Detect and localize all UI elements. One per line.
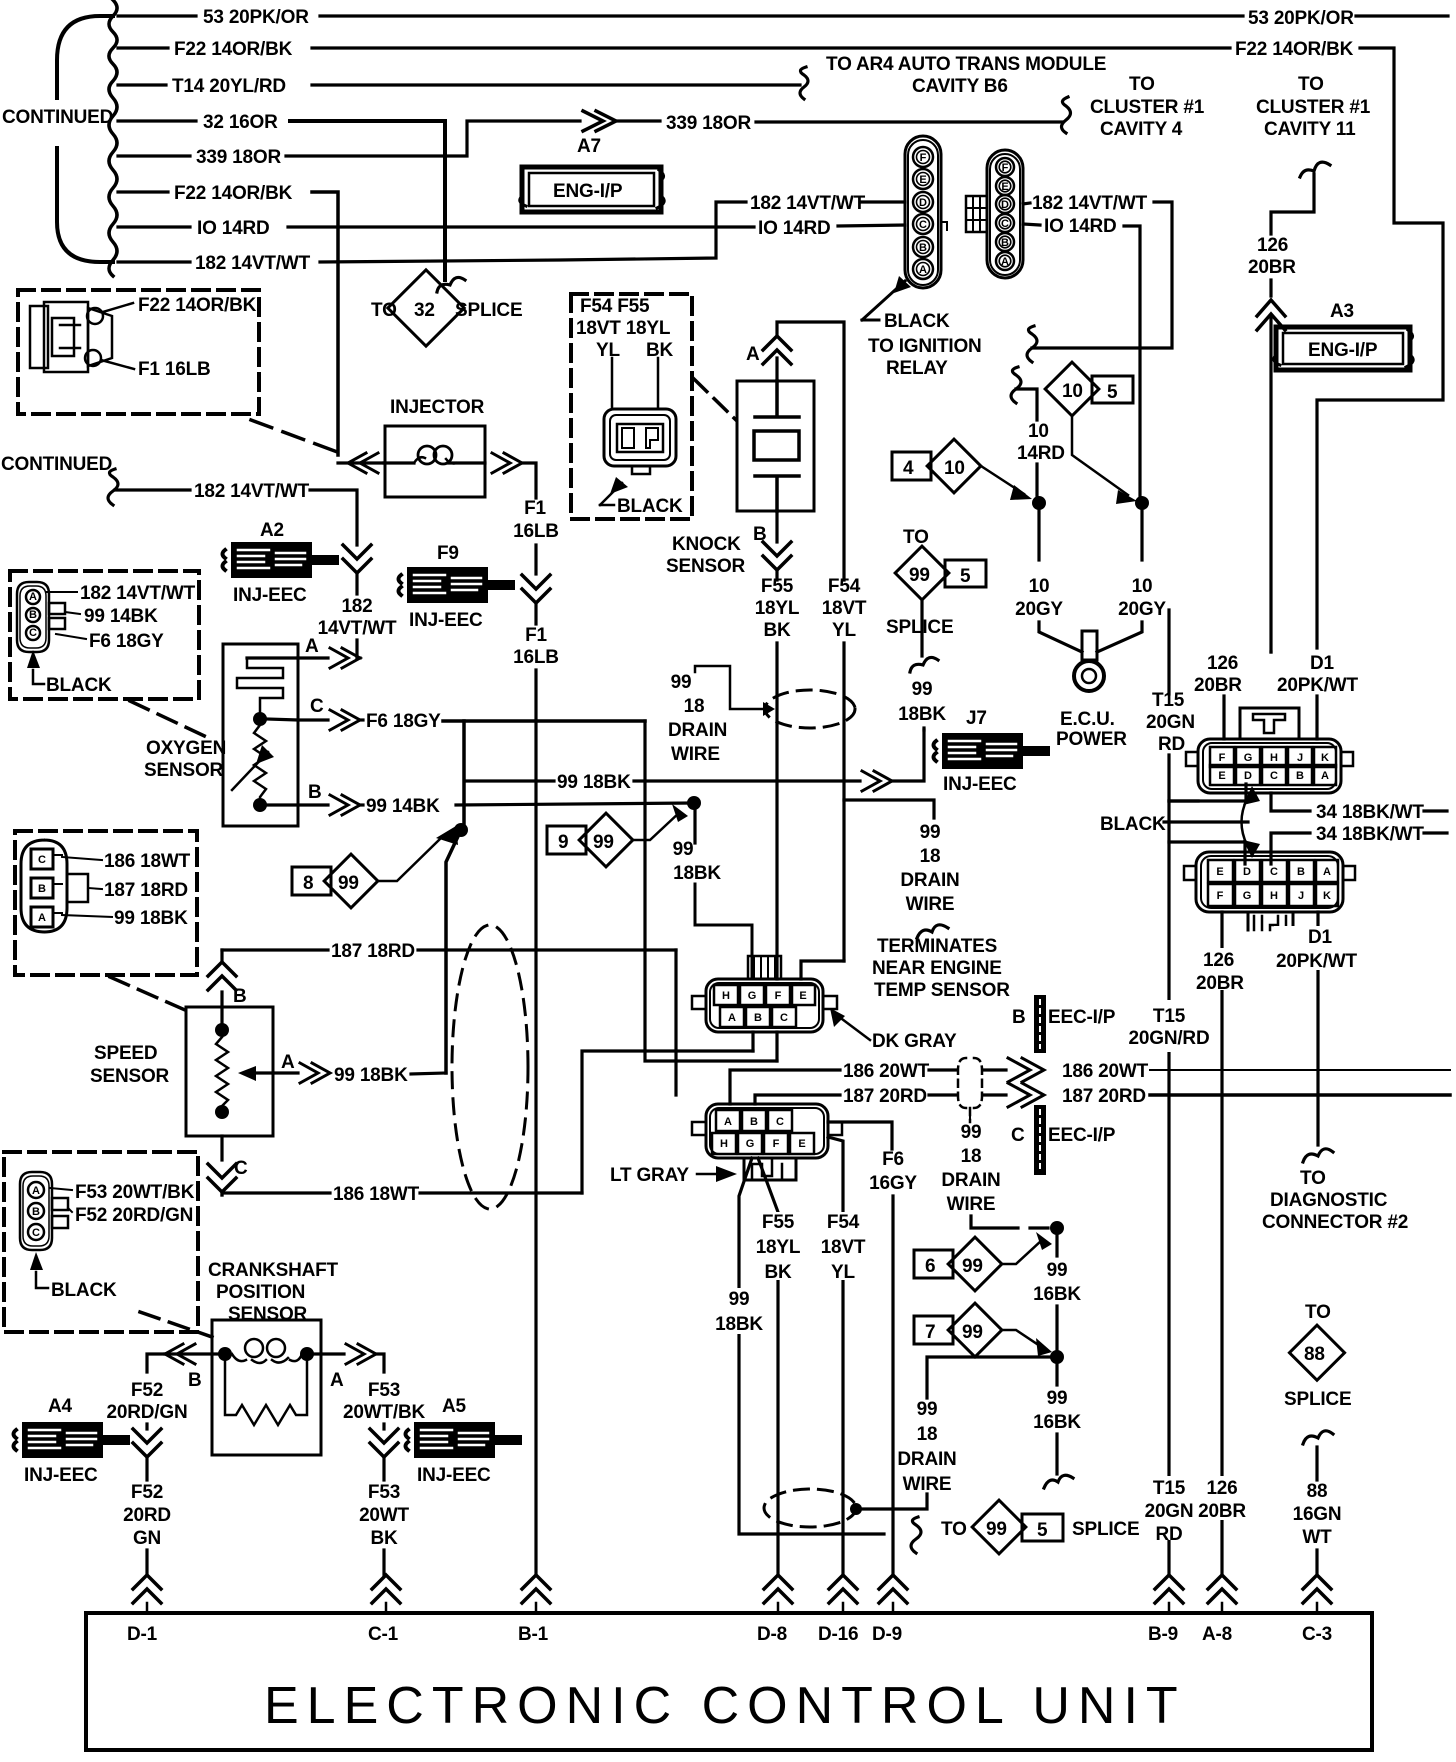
svg-text:INJ-EEC: INJ-EEC — [233, 585, 307, 606]
KNOCK SENSOR — [666, 322, 844, 580]
connector C1 6-pin left — [862, 136, 982, 379]
svg-text:CAVITY 11: CAVITY 11 — [1264, 119, 1356, 140]
186 18WT row — [222, 1193, 330, 1195]
svg-text:SPLICE: SPLICE — [1072, 1519, 1139, 1540]
svg-text:99: 99 — [920, 822, 941, 843]
svg-text:D-8: D-8 — [757, 1624, 787, 1645]
svg-text:F22 14OR/BK: F22 14OR/BK — [138, 295, 257, 316]
svg-text:LT GRAY: LT GRAY — [610, 1165, 689, 1186]
svg-text:BLACK: BLACK — [617, 496, 683, 517]
svg-text:C: C — [310, 696, 324, 717]
svg-text:53 20PK/OR: 53 20PK/OR — [1248, 8, 1354, 29]
svg-text:5: 5 — [1037, 1520, 1048, 1541]
svg-text:NEAR ENGINE: NEAR ENGINE — [872, 958, 1002, 979]
svg-text:187 18RD: 187 18RD — [104, 880, 188, 901]
svg-text:182: 182 — [341, 596, 372, 617]
svg-text:H: H — [722, 990, 730, 1002]
oxygen sensor box — [223, 636, 692, 826]
ignition relay breaks — [1027, 326, 1037, 362]
99 18BK corner wire + heavy verticals — [462, 721, 466, 826]
svg-text:T15: T15 — [1153, 1006, 1186, 1027]
F22/F1 dashed box top-left — [18, 290, 259, 414]
svg-text:187 20RD: 187 20RD — [843, 1086, 927, 1107]
svg-text:A: A — [32, 1185, 40, 1197]
conn1 10-pin — [1186, 708, 1353, 793]
svg-text:F22 14OR/BK: F22 14OR/BK — [174, 183, 293, 204]
svg-text:D: D — [1001, 199, 1009, 211]
LT GRAY connector — [610, 1104, 842, 1186]
svg-text:TO: TO — [371, 300, 397, 321]
svg-text:SENSOR: SENSOR — [666, 556, 746, 577]
svg-text:YL: YL — [596, 340, 620, 361]
TO 99|5 SPLICE lower — [941, 1500, 1139, 1554]
svg-text:E.C.U.: E.C.U. — [1060, 709, 1115, 730]
svg-text:99 18BK: 99 18BK — [557, 772, 631, 793]
svg-text:182 14VT/WT: 182 14VT/WT — [194, 481, 310, 502]
svg-text:DRAIN: DRAIN — [941, 1170, 1000, 1191]
svg-text:99: 99 — [961, 1122, 982, 1143]
svg-text:POWER: POWER — [1056, 729, 1127, 750]
svg-text:T15: T15 — [1153, 1478, 1186, 1499]
svg-text:20GN: 20GN — [1146, 712, 1195, 733]
svg-text:B: B — [1297, 866, 1305, 878]
svg-text:C: C — [780, 1012, 788, 1024]
svg-text:G: G — [1243, 890, 1252, 902]
svg-text:F52: F52 — [131, 1380, 163, 1401]
wire IO 14RD y227 — [118, 225, 190, 228]
svg-text:18BK: 18BK — [898, 704, 946, 725]
speed sensor dashed connector box — [15, 831, 197, 975]
svg-text:F54 F55: F54 F55 — [580, 296, 650, 317]
svg-text:WIRE: WIRE — [947, 1194, 996, 1215]
svg-text:SPLICE: SPLICE — [455, 300, 522, 321]
svg-text:WIRE: WIRE — [903, 1474, 952, 1495]
svg-text:F1: F1 — [524, 498, 546, 519]
10 20GY labels + ring — [1037, 509, 1040, 560]
svg-text:A: A — [38, 912, 46, 924]
svg-text:18VT: 18VT — [822, 598, 867, 619]
svg-text:E: E — [1216, 866, 1223, 878]
svg-text:A7: A7 — [577, 136, 601, 157]
svg-text:D-1: D-1 — [127, 1624, 158, 1645]
svg-text:A5: A5 — [442, 1396, 467, 1417]
svg-text:182 14VT/WT: 182 14VT/WT — [1032, 193, 1148, 214]
DK GRAY connector — [692, 800, 957, 1052]
svg-text:F: F — [773, 1138, 780, 1150]
wire T14 20YL/RD — [118, 83, 166, 86]
svg-text:G: G — [748, 990, 757, 1002]
svg-text:B: B — [32, 1206, 40, 1218]
svg-text:F55: F55 — [762, 1212, 795, 1233]
svg-text:E: E — [798, 1138, 805, 1150]
svg-text:99: 99 — [673, 839, 694, 860]
A4 and A5 icons — [14, 1396, 131, 1486]
svg-text:BK: BK — [764, 1262, 792, 1283]
99 18 drain wire #3 (under C) — [941, 1114, 1048, 1228]
svg-text:B: B — [29, 609, 37, 621]
svg-text:CONTINUED: CONTINUED — [1, 454, 112, 475]
svg-text:18: 18 — [684, 696, 705, 717]
F55/F54/F6 below LT GRAY — [758, 1158, 778, 1575]
svg-text:F54: F54 — [828, 576, 861, 597]
ENG-I/P A3 box — [1274, 301, 1413, 370]
9|99 diamond — [547, 804, 688, 867]
break to AR4 — [800, 67, 808, 99]
svg-text:INJ-EEC: INJ-EEC — [409, 610, 483, 631]
D1 col below conn2 — [1316, 912, 1319, 1145]
dashed inline conn — [958, 1058, 982, 1108]
crank dashed connector box — [4, 1152, 198, 1332]
svg-text:H: H — [720, 1138, 728, 1150]
svg-text:16BK: 16BK — [1033, 1284, 1081, 1305]
svg-text:339 18OR: 339 18OR — [666, 113, 751, 134]
svg-text:F6: F6 — [882, 1149, 904, 1170]
svg-text:RD: RD — [1155, 1524, 1182, 1545]
svg-text:BLACK: BLACK — [46, 675, 112, 696]
svg-text:C-1: C-1 — [368, 1624, 399, 1645]
conn2 10-pin — [1184, 852, 1355, 930]
svg-text:B: B — [188, 1370, 202, 1391]
svg-text:DRAIN: DRAIN — [668, 720, 727, 741]
svg-text:126: 126 — [1207, 653, 1238, 674]
svg-text:A: A — [746, 344, 760, 365]
svg-text:339 18OR: 339 18OR — [196, 147, 281, 168]
svg-text:126: 126 — [1203, 950, 1234, 971]
wire 182 y262 — [118, 260, 190, 263]
svg-text:WIRE: WIRE — [906, 894, 955, 915]
svg-text:20BR: 20BR — [1196, 973, 1244, 994]
svg-text:J: J — [1298, 890, 1304, 902]
svg-text:YL: YL — [832, 620, 856, 641]
INJECTOR — [338, 397, 536, 498]
svg-text:16GN: 16GN — [1293, 1504, 1342, 1525]
svg-text:16GY: 16GY — [869, 1173, 917, 1194]
svg-text:A: A — [29, 591, 37, 603]
svg-text:18VT 18YL: 18VT 18YL — [576, 318, 671, 339]
svg-text:B: B — [38, 883, 46, 895]
svg-text:99: 99 — [1047, 1260, 1068, 1281]
svg-text:18VT: 18VT — [821, 1237, 866, 1258]
svg-text:E: E — [1218, 770, 1225, 782]
svg-text:88: 88 — [1307, 1481, 1328, 1502]
svg-text:F1: F1 — [525, 625, 547, 646]
svg-text:SPLICE: SPLICE — [1284, 1389, 1351, 1410]
svg-text:A2: A2 — [260, 520, 284, 541]
svg-text:F9: F9 — [437, 543, 459, 564]
svg-text:C: C — [32, 1227, 40, 1239]
186/187 rows — [730, 1070, 840, 1104]
svg-text:F55: F55 — [761, 576, 794, 597]
svg-text:D-9: D-9 — [872, 1624, 902, 1645]
svg-text:10: 10 — [1132, 576, 1153, 597]
svg-text:5: 5 — [1107, 382, 1118, 403]
svg-text:186 18WT: 186 18WT — [104, 851, 191, 872]
svg-text:A: A — [305, 636, 319, 657]
svg-text:K: K — [1323, 890, 1331, 902]
hatch block left of connector — [966, 196, 987, 232]
break line (wavy) left — [109, 0, 117, 276]
B EEC-I/P — [1012, 995, 1116, 1053]
svg-text:14RD: 14RD — [1017, 443, 1065, 464]
svg-text:C: C — [776, 1116, 784, 1128]
svg-text:SENSOR: SENSOR — [90, 1066, 170, 1087]
svg-text:CONNECTOR #2: CONNECTOR #2 — [1262, 1212, 1408, 1233]
svg-text:99: 99 — [593, 832, 614, 853]
svg-text:5: 5 — [960, 566, 971, 587]
svg-text:10: 10 — [1028, 421, 1049, 442]
svg-text:SPEED: SPEED — [94, 1043, 157, 1064]
svg-text:99: 99 — [962, 1322, 983, 1343]
connector C2 6-pin right — [966, 150, 1172, 498]
svg-text:20GY: 20GY — [1118, 599, 1166, 620]
svg-text:J7: J7 — [966, 708, 987, 729]
A2 INJ-EEC — [223, 520, 340, 606]
svg-text:18BK: 18BK — [715, 1314, 763, 1335]
svg-text:J: J — [1297, 752, 1303, 764]
182 wire down from CONTINUED2 — [310, 490, 357, 545]
svg-text:G: G — [746, 1138, 755, 1150]
svg-text:C-3: C-3 — [1302, 1624, 1332, 1645]
4|10 diamond — [892, 439, 1032, 500]
svg-text:182 14VT/WT: 182 14VT/WT — [80, 583, 196, 604]
svg-text:WIRE: WIRE — [671, 744, 720, 765]
svg-text:TO AR4 AUTO TRANS MODULE: TO AR4 AUTO TRANS MODULE — [826, 54, 1106, 75]
svg-text:187 18RD: 187 18RD — [331, 941, 415, 962]
svg-text:SENSOR: SENSOR — [228, 1304, 308, 1325]
svg-text:20RD/GN: 20RD/GN — [107, 1402, 188, 1423]
svg-text:A: A — [728, 1012, 736, 1024]
svg-text:F53: F53 — [368, 1482, 400, 1503]
svg-text:6: 6 — [925, 1256, 935, 1277]
svg-text:TO: TO — [1129, 74, 1155, 95]
ENG-I/P A7 box — [520, 167, 664, 212]
6|99 7|99 — [914, 1232, 1052, 1291]
svg-text:99 14BK: 99 14BK — [366, 796, 440, 817]
svg-text:B: B — [1001, 237, 1009, 249]
svg-text:20GN/RD: 20GN/RD — [1129, 1028, 1210, 1049]
TO 32 SPLICE — [371, 270, 522, 346]
svg-text:20GY: 20GY — [1015, 599, 1063, 620]
svg-text:B: B — [1296, 770, 1304, 782]
svg-text:F: F — [1219, 752, 1226, 764]
svg-text:ENG-I/P: ENG-I/P — [1308, 340, 1378, 361]
svg-text:99: 99 — [962, 1256, 983, 1277]
svg-text:20BR: 20BR — [1248, 257, 1296, 278]
svg-text:8: 8 — [303, 873, 313, 894]
svg-text:4: 4 — [903, 458, 914, 479]
svg-text:A3: A3 — [1330, 301, 1354, 322]
svg-text:16BK: 16BK — [1033, 1412, 1081, 1433]
svg-text:TO: TO — [1298, 74, 1324, 95]
svg-text:GN: GN — [133, 1528, 161, 1549]
svg-text:20BR: 20BR — [1194, 675, 1242, 696]
svg-text:TO: TO — [941, 1519, 967, 1540]
svg-text:TERMINATES: TERMINATES — [877, 936, 997, 957]
svg-text:D: D — [1244, 770, 1252, 782]
svg-text:OXYGEN: OXYGEN — [146, 738, 226, 759]
injector connector icon — [30, 302, 112, 372]
svg-text:10: 10 — [1029, 576, 1050, 597]
svg-text:IO 14RD: IO 14RD — [1044, 216, 1117, 237]
wire 339 18OR — [118, 154, 190, 157]
99 18 drain wire #2 (terminates) — [872, 822, 1010, 1001]
svg-text:BLACK: BLACK — [884, 311, 950, 332]
svg-text:18: 18 — [917, 1424, 938, 1445]
svg-text:99: 99 — [729, 1289, 750, 1310]
SPEED SENSOR — [90, 950, 446, 1195]
TO 99|5 SPLICE upper — [886, 527, 986, 730]
svg-text:A: A — [1323, 866, 1331, 878]
svg-text:B: B — [919, 242, 927, 254]
svg-text:10: 10 — [944, 458, 965, 479]
A7 arrow — [583, 111, 616, 131]
svg-text:D-16: D-16 — [818, 1624, 858, 1645]
svg-text:C: C — [919, 219, 927, 231]
svg-text:20BR: 20BR — [1198, 1501, 1246, 1522]
svg-text:F52: F52 — [131, 1482, 163, 1503]
ECU box — [86, 1613, 1372, 1750]
svg-text:D1: D1 — [1308, 927, 1333, 948]
svg-text:32 16OR: 32 16OR — [203, 112, 278, 133]
svg-text:A: A — [919, 264, 927, 276]
break + wire 126 — [1300, 162, 1330, 177]
svg-text:DK GRAY: DK GRAY — [872, 1031, 957, 1052]
svg-text:C: C — [29, 627, 37, 639]
svg-text:C: C — [1270, 770, 1278, 782]
svg-text:WT: WT — [1302, 1527, 1332, 1548]
svg-text:16LB: 16LB — [513, 521, 559, 542]
svg-text:99: 99 — [1047, 1388, 1068, 1409]
svg-text:F6 18GY: F6 18GY — [366, 711, 441, 732]
svg-text:20GN: 20GN — [1145, 1501, 1194, 1522]
svg-text:TO: TO — [903, 527, 929, 548]
svg-text:A-8: A-8 — [1202, 1624, 1232, 1645]
svg-text:F54: F54 — [827, 1212, 860, 1233]
svg-text:TO: TO — [1305, 1302, 1331, 1323]
svg-text:A: A — [1001, 256, 1009, 268]
svg-text:32: 32 — [414, 300, 435, 321]
svg-text:A: A — [330, 1370, 344, 1391]
svg-text:F: F — [775, 990, 782, 1002]
black arrow to pin A — [862, 281, 905, 320]
svg-text:186 18WT: 186 18WT — [333, 1184, 420, 1205]
break to cluster4 — [1062, 97, 1071, 133]
big dashed ellipse — [452, 925, 528, 1209]
svg-text:F52 20RD/GN: F52 20RD/GN — [75, 1205, 193, 1226]
svg-text:BLACK: BLACK — [51, 1280, 117, 1301]
svg-text:DRAIN: DRAIN — [900, 870, 959, 891]
svg-text:INJ-EEC: INJ-EEC — [417, 1465, 491, 1486]
svg-text:7: 7 — [925, 1322, 935, 1343]
svg-text:C: C — [1001, 218, 1009, 230]
svg-text:B: B — [750, 1116, 758, 1128]
svg-text:99: 99 — [986, 1519, 1007, 1540]
svg-text:99 18BK: 99 18BK — [114, 908, 188, 929]
svg-text:K: K — [1321, 752, 1329, 764]
svg-text:186 20WT: 186 20WT — [1062, 1061, 1149, 1082]
svg-text:D: D — [919, 197, 927, 209]
svg-text:99: 99 — [909, 565, 930, 586]
svg-text:187 20RD: 187 20RD — [1062, 1086, 1146, 1107]
svg-text:H: H — [1270, 752, 1278, 764]
svg-text:B: B — [308, 782, 322, 803]
svg-text:DRAIN: DRAIN — [897, 1449, 956, 1470]
svg-text:18YL: 18YL — [756, 1237, 801, 1258]
svg-text:C: C — [1270, 866, 1278, 878]
svg-text:E: E — [799, 990, 806, 1002]
svg-text:20WT/BK: 20WT/BK — [343, 1402, 425, 1423]
svg-text:RD: RD — [1158, 734, 1185, 755]
C EEC-I/P — [1011, 1105, 1116, 1175]
svg-text:CONTINUED: CONTINUED — [2, 107, 113, 128]
svg-text:88: 88 — [1304, 1344, 1325, 1365]
svg-text:CLUSTER #1: CLUSTER #1 — [1090, 97, 1205, 118]
svg-text:10: 10 — [1062, 381, 1083, 402]
svg-text:16LB: 16LB — [513, 647, 559, 668]
svg-text:CRANKSHAFT: CRANKSHAFT — [208, 1260, 339, 1281]
svg-text:99: 99 — [671, 672, 692, 693]
svg-text:CAVITY B6: CAVITY B6 — [912, 76, 1008, 97]
svg-text:G: G — [1244, 752, 1253, 764]
svg-text:34 18BK/WT: 34 18BK/WT — [1316, 824, 1424, 845]
wire 53 20PK/OR — [118, 14, 196, 17]
svg-text:C: C — [38, 854, 46, 866]
CRANKSHAFT SENSOR BOX — [147, 1320, 384, 1455]
F9 INJ-EEC — [399, 543, 516, 631]
svg-text:BK: BK — [646, 340, 674, 361]
svg-text:BLACK: BLACK — [1100, 814, 1166, 835]
svg-text:F: F — [920, 152, 927, 164]
svg-text:99: 99 — [338, 873, 359, 894]
svg-text:182 14VT/WT: 182 14VT/WT — [750, 193, 866, 214]
svg-text:D1: D1 — [1310, 653, 1335, 674]
10|5 diamond — [1045, 362, 1137, 504]
wire F22 row2 y192 — [118, 190, 168, 193]
svg-text:99: 99 — [917, 1399, 938, 1420]
svg-text:F: F — [1217, 890, 1224, 902]
wire F22 14OR/BK — [118, 46, 168, 49]
svg-text:F: F — [1002, 162, 1009, 174]
svg-text:SPLICE: SPLICE — [886, 617, 953, 638]
svg-text:RELAY: RELAY — [886, 358, 948, 379]
svg-text:IO 14RD: IO 14RD — [758, 218, 831, 239]
svg-text:126: 126 — [1257, 235, 1288, 256]
svg-text:F53 20WT/BK: F53 20WT/BK — [75, 1182, 195, 1203]
126 20BR col (A-8) — [1220, 912, 1223, 1575]
svg-text:182 14VT/WT: 182 14VT/WT — [195, 253, 311, 274]
svg-text:POSITION: POSITION — [216, 1282, 305, 1303]
svg-text:F6 18GY: F6 18GY — [89, 631, 164, 652]
svg-text:14VT/WT: 14VT/WT — [318, 618, 397, 639]
88 splice — [1284, 1302, 1351, 1575]
svg-text:CAVITY 4: CAVITY 4 — [1100, 119, 1183, 140]
svg-text:H: H — [1270, 890, 1278, 902]
chevron up 126 — [1257, 300, 1285, 330]
svg-text:INJ-EEC: INJ-EEC — [943, 774, 1017, 795]
svg-text:B-9: B-9 — [1148, 1624, 1178, 1645]
oxygen sensor dashed box — [10, 571, 199, 699]
svg-text:D: D — [1243, 866, 1251, 878]
svg-text:18: 18 — [920, 846, 941, 867]
svg-text:F1 16LB: F1 16LB — [138, 359, 211, 380]
svg-text:A: A — [724, 1116, 732, 1128]
svg-text:B-1: B-1 — [518, 1624, 549, 1645]
svg-text:20PK/WT: 20PK/WT — [1277, 675, 1359, 696]
J7 — [934, 708, 1051, 795]
svg-text:18BK: 18BK — [673, 863, 721, 884]
svg-text:B: B — [1012, 1007, 1026, 1028]
svg-text:B: B — [754, 1012, 762, 1024]
